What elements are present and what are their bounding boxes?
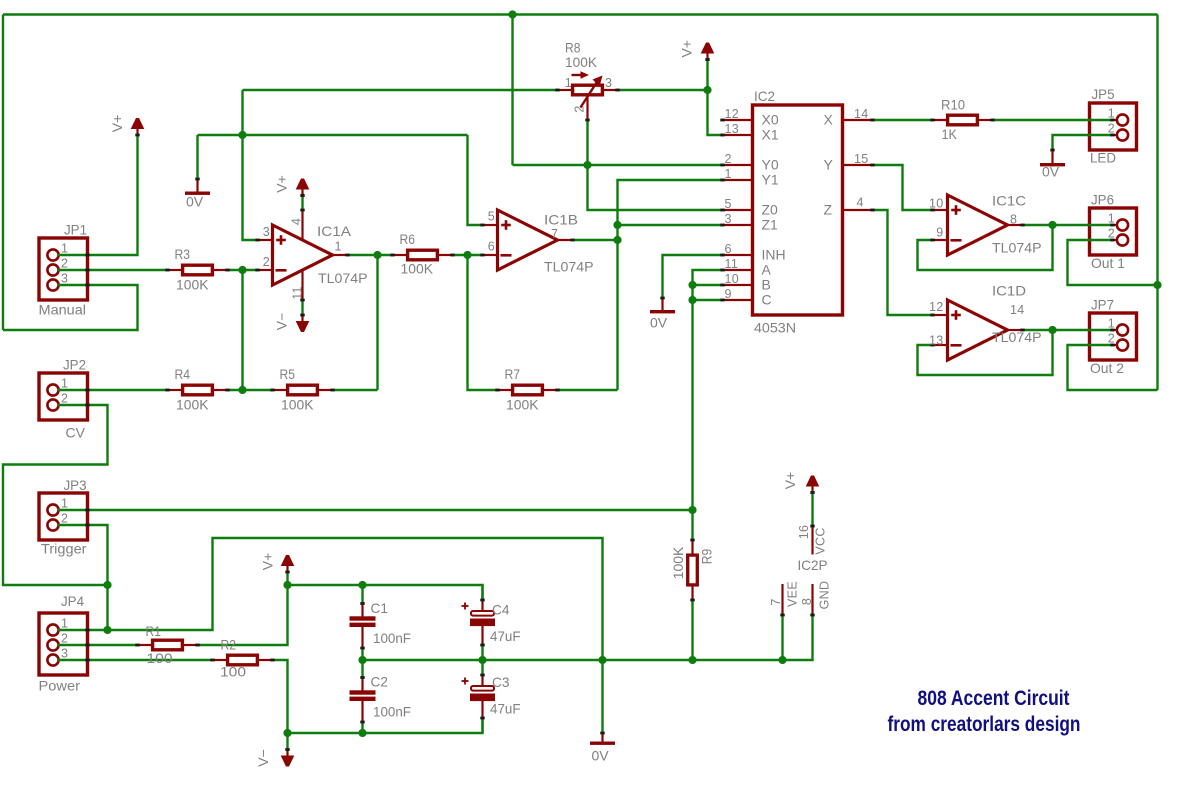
svg-text:TL074P: TL074P [992, 240, 1042, 256]
svg-text:Z0: Z0 [762, 202, 779, 218]
svg-text:X0: X0 [762, 112, 779, 128]
wire Y1 [618, 180, 723, 390]
svg-text:JP1: JP1 [64, 222, 87, 238]
wire bias 0V horizontal [198, 134, 468, 136]
junction Z1 / IC1B out net [613, 221, 621, 229]
ground 0V at bottom rail [590, 732, 615, 745]
wire IC1A out to R6 [348, 254, 393, 256]
JP7 pin contact points [1110, 329, 1114, 347]
junction IC1A out / R5 / R6 [373, 251, 381, 259]
resistor R3 [165, 265, 229, 275]
resistor R1 [135, 640, 199, 650]
svg-text:JP5: JP5 [1092, 86, 1115, 102]
svg-text:Trigger: Trigger [41, 541, 87, 557]
svg-text:0V: 0V [1042, 164, 1060, 180]
wire IC1A feedback node down [241, 270, 243, 390]
svg-text:4053N: 4053N [754, 320, 796, 336]
svg-text:V+: V+ [679, 40, 695, 58]
svg-text:JP6: JP6 [1091, 192, 1114, 208]
wire bias net vertical [243, 90, 258, 240]
JP1 pin contact points [85, 254, 89, 287]
wire IC1B out [573, 239, 618, 241]
wire Z1 [618, 224, 723, 226]
svg-text:R7: R7 [505, 366, 521, 382]
svg-text:5: 5 [488, 210, 495, 224]
svg-text:3: 3 [605, 76, 612, 90]
wire JP3 pin2 down [58, 525, 108, 630]
wire JP4 pin2 to R1 [58, 644, 138, 646]
JP6 pin contact points [1110, 224, 1114, 242]
junction V+ rail / C1 [358, 581, 366, 589]
wire JP1 pin2 to R3 [58, 269, 168, 271]
junction trigger / R9 [688, 506, 696, 514]
svg-text:100K: 100K [281, 397, 314, 413]
wire R8 pin3 to V+ node [618, 89, 708, 91]
svg-text:C2: C2 [371, 674, 389, 690]
wire IC2 X to R10 [873, 119, 933, 121]
wire IC1D feedback [918, 330, 1053, 375]
svg-text:Y1: Y1 [762, 172, 779, 188]
svg-text:R5: R5 [280, 366, 296, 382]
svg-text:14: 14 [1010, 303, 1025, 317]
svg-text:1: 1 [1108, 317, 1115, 331]
svg-text:IC1B: IC1B [544, 212, 578, 228]
ground 0V at bias net [185, 178, 210, 195]
svg-text:13: 13 [725, 122, 740, 136]
svg-text:C: C [762, 292, 772, 308]
svg-text:2: 2 [61, 632, 68, 646]
op-amp IC1D [930, 300, 1024, 360]
trimmer R8 [555, 71, 619, 121]
wire IC1A pin4 stem [301, 193, 303, 210]
svg-text:7: 7 [551, 227, 558, 241]
svg-text:R9: R9 [699, 549, 715, 565]
svg-text:5: 5 [725, 197, 732, 211]
svg-text:1: 1 [725, 167, 732, 181]
wire ground rail [363, 615, 813, 660]
wire R2 to V- rail [273, 660, 288, 733]
wire IC2 Z to IC1D [873, 210, 933, 315]
capacitor C2 [350, 660, 376, 733]
wire IC1A out feedback down [376, 255, 378, 390]
wire top border net [3, 13, 1158, 15]
resistor R9 [688, 539, 698, 602]
svg-text:100: 100 [220, 664, 246, 680]
wire B [693, 284, 723, 286]
svg-text:X1: X1 [762, 127, 779, 143]
svg-text:C1: C1 [371, 600, 389, 616]
svg-text:TL074P: TL074P [992, 329, 1042, 345]
svg-text:100K: 100K [565, 54, 598, 70]
svg-text:10: 10 [725, 272, 740, 286]
svg-text:8: 8 [1010, 213, 1017, 227]
wire VCC stem [811, 492, 813, 526]
svg-text:1: 1 [61, 377, 68, 391]
junction bias net 0V [238, 131, 246, 139]
op-amp IC1A [255, 209, 349, 302]
op-amp IC1B [480, 210, 574, 270]
svg-text:2: 2 [725, 152, 732, 166]
wire JP4 pin1 ground [58, 538, 603, 660]
junction V+ rail / R1 [283, 581, 291, 589]
wire R8 wiper net [588, 120, 723, 210]
wire IC2 Y to IC1C [873, 165, 933, 210]
svg-text:808 Accent Circuit: 808 Accent Circuit [918, 687, 1070, 710]
wire INH to 0V [663, 255, 723, 298]
svg-text:Z1: Z1 [762, 217, 779, 233]
wire IC1D out to JP7 [1023, 329, 1113, 331]
svg-text:IC2: IC2 [754, 88, 775, 104]
IC U2 power pins IC2P [780, 525, 814, 617]
svg-text:X: X [824, 112, 834, 128]
svg-text:TL074P: TL074P [544, 259, 594, 275]
junction A / B [688, 281, 696, 289]
svg-text:14: 14 [854, 107, 869, 121]
junction ground rail / 0V [598, 656, 606, 664]
svg-text:GND: GND [818, 581, 832, 610]
junction B / C [688, 296, 696, 304]
svg-text:JP7: JP7 [1091, 297, 1114, 313]
wire JP2 pin1 to R4 [58, 389, 168, 391]
svg-text:6: 6 [488, 240, 495, 254]
svg-text:VEE: VEE [786, 581, 800, 607]
wire R1 to V+ rail [198, 585, 288, 645]
wire R5 to feedback node [333, 389, 378, 391]
svg-text:2: 2 [263, 255, 270, 269]
svg-text:10: 10 [929, 197, 944, 211]
svg-text:C3: C3 [492, 674, 510, 690]
svg-text:INH: INH [762, 247, 786, 263]
svg-text:Out 1: Out 1 [1091, 255, 1125, 271]
wire R3 to IC1A pin2 [228, 269, 258, 271]
wire ground to 0V bottom [601, 660, 603, 733]
svg-text:1: 1 [1108, 212, 1115, 226]
junction JP3 pin2 / JP4 pin1 [103, 626, 111, 634]
V+ symbol at IC1A pin4 [296, 179, 310, 197]
resistor R2 [210, 655, 274, 665]
svg-text:12: 12 [725, 107, 740, 121]
JP4 pin contact points [85, 629, 89, 662]
svg-text:LED: LED [1090, 150, 1116, 166]
wire C [693, 299, 723, 301]
junction ground rail / C4 C3 [478, 656, 486, 664]
svg-text:Manual: Manual [39, 302, 87, 318]
svg-text:100K: 100K [670, 546, 686, 579]
svg-text:47uF: 47uF [490, 701, 521, 717]
svg-text:100K: 100K [176, 397, 209, 413]
svg-text:A: A [762, 262, 772, 278]
connector JP2 [39, 373, 88, 420]
JP5 pin contact points [1110, 119, 1114, 137]
svg-text:9: 9 [725, 287, 732, 301]
svg-text:from creatorlars design: from creatorlars design [888, 713, 1081, 736]
junction R6 / IC1B pin6 / R7 [463, 251, 471, 259]
svg-text:V+: V+ [274, 175, 290, 193]
wire R6 to IC1B pin6 [453, 254, 483, 256]
svg-text:V+: V+ [109, 115, 125, 133]
wire V+ arrow stem [286, 572, 288, 585]
svg-text:TL074P: TL074P [318, 270, 368, 286]
wire IC1B pin6 to R7 left [468, 255, 498, 390]
svg-text:13: 13 [929, 334, 944, 348]
wire right border net [1156, 15, 1158, 391]
wire Y0 [513, 164, 723, 166]
svg-text:V+: V+ [782, 472, 798, 490]
wire JP5 pin2 to 0V [1053, 135, 1113, 150]
connector JP3 [39, 493, 88, 540]
resistor R5 [270, 385, 334, 395]
svg-text:1: 1 [335, 240, 342, 254]
V+ symbol at IC2P VCC [806, 476, 820, 494]
capacitor C1 [350, 585, 376, 660]
V+ symbol at supply rail [281, 555, 295, 573]
connector JP1 [39, 238, 88, 300]
wire R9 bottom to rail [691, 600, 693, 660]
svg-text:Z: Z [824, 202, 833, 218]
svg-text:1: 1 [1108, 107, 1115, 121]
svg-text:V−: V− [274, 313, 290, 331]
svg-text:3: 3 [263, 225, 270, 239]
svg-text:IC1D: IC1D [992, 283, 1026, 299]
svg-text:9: 9 [936, 226, 943, 240]
svg-text:7: 7 [769, 598, 783, 605]
wire bias to R8 pin1 [243, 89, 558, 91]
op-amp IC1C [930, 195, 1024, 255]
resistor R10 [930, 115, 994, 125]
wire IC1A pin11 stem [301, 300, 303, 317]
connector JP5 [1090, 103, 1137, 150]
svg-text:V+: V+ [260, 553, 276, 571]
V+ symbol at JP1 [131, 118, 145, 136]
svg-text:100nF: 100nF [373, 704, 411, 720]
svg-text:11: 11 [725, 257, 739, 271]
svg-text:Power: Power [39, 678, 81, 694]
svg-text:C4: C4 [492, 602, 510, 618]
wire VEE to rail [781, 615, 783, 660]
wire JP6 pin2 to border [1068, 240, 1158, 285]
svg-text:Y: Y [824, 157, 834, 173]
junction ground loop left [103, 581, 111, 589]
svg-text:3: 3 [725, 212, 732, 226]
wire V- rail [288, 718, 483, 733]
svg-text:2: 2 [61, 257, 68, 271]
svg-text:12: 12 [929, 300, 944, 314]
svg-text:1: 1 [61, 617, 68, 631]
svg-text:2: 2 [1108, 122, 1115, 136]
wire JP3 pin1 trigger [58, 509, 693, 511]
svg-text:V−: V− [255, 749, 271, 767]
svg-text:IC2P: IC2P [798, 557, 828, 573]
svg-text:2: 2 [1108, 227, 1115, 241]
connector JP7 [1090, 313, 1137, 360]
svg-text:1: 1 [565, 76, 572, 90]
svg-text:100K: 100K [506, 397, 539, 413]
svg-text:100K: 100K [176, 277, 209, 293]
svg-text:IC1C: IC1C [992, 193, 1026, 209]
svg-text:47uF: 47uF [490, 628, 521, 644]
svg-text:JP4: JP4 [61, 593, 84, 609]
svg-text:6: 6 [725, 242, 732, 256]
svg-text:R2: R2 [221, 637, 237, 653]
svg-text:16: 16 [797, 525, 811, 540]
ground 0V at IC2 INH [650, 297, 675, 314]
wire V+ rail [288, 585, 483, 600]
junction R8 pin3 / V+ / X1 [703, 86, 711, 94]
svg-text:Y0: Y0 [762, 157, 779, 173]
junction IC1D out / feedback [1048, 326, 1056, 334]
junction ground rail / VEE [778, 656, 786, 664]
junction IC1C out / feedback [1048, 221, 1056, 229]
junction ground rail / R9 [688, 656, 696, 664]
svg-text:IC1A: IC1A [317, 223, 352, 239]
svg-text:R10: R10 [941, 97, 965, 113]
junction top border / Y0 [508, 10, 516, 18]
wire 0V to IC1B pin5 [468, 135, 483, 225]
svg-text:100: 100 [147, 650, 173, 666]
svg-text:2: 2 [61, 512, 68, 526]
svg-text:2: 2 [573, 105, 587, 112]
junction ground rail / C1 C2 [358, 656, 366, 664]
svg-text:2: 2 [1108, 332, 1115, 346]
V- symbol at IC1A pin11 [296, 314, 310, 332]
wire V- arrow stem [286, 733, 288, 750]
svg-text:0V: 0V [650, 315, 668, 331]
JP2 pin contact points [85, 389, 89, 407]
wire bias 0V stem [196, 135, 198, 179]
junction R3 / IC1A pin2 [238, 266, 246, 274]
capacitor C4 [462, 585, 496, 660]
wire JP1 pin3 to left border [3, 285, 138, 330]
svg-text:100K: 100K [401, 261, 434, 277]
wire JP2 pin2 ground loop [3, 405, 108, 585]
connector JP4 [39, 613, 88, 675]
ground 0V at JP5 [1040, 149, 1065, 167]
svg-text:Out 2: Out 2 [1090, 360, 1124, 376]
svg-text:0V: 0V [186, 194, 204, 210]
svg-text:JP3: JP3 [64, 477, 87, 493]
svg-text:4: 4 [290, 218, 304, 225]
junction IC1B out / Y1 / R7 [613, 236, 621, 244]
junction R4 / R5 / feedback [238, 386, 246, 394]
wire IC1C feedback [918, 225, 1053, 270]
wire R4 to R5 [228, 389, 273, 391]
svg-text:CV: CV [66, 425, 86, 441]
wire JP1 pin1 to V+ [58, 134, 138, 255]
svg-text:R3: R3 [175, 246, 191, 262]
svg-text:VCC: VCC [814, 527, 828, 554]
wire JP4 pin3 to R2 [58, 659, 213, 661]
svg-text:R6: R6 [400, 231, 416, 247]
svg-text:1: 1 [61, 242, 68, 256]
svg-text:JP2: JP2 [63, 357, 86, 373]
connector JP6 [1090, 208, 1137, 255]
svg-text:11: 11 [291, 286, 305, 300]
resistor R7 [495, 385, 559, 395]
svg-text:R4: R4 [175, 366, 191, 382]
junction Y0 / R8 wiper [583, 161, 591, 169]
wire V+ node to IC2 X1 [708, 59, 723, 135]
svg-text:B: B [762, 277, 771, 293]
JP3 pin contact points [85, 509, 89, 527]
wire IC1C out to JP6 [1023, 224, 1113, 226]
capacitor C3 [462, 660, 496, 733]
wire R10 to JP5 pin1 [993, 119, 1113, 121]
svg-text:100nF: 100nF [373, 630, 411, 646]
svg-text:3: 3 [61, 647, 68, 661]
svg-text:1: 1 [61, 497, 68, 511]
V+ symbol at IC2 X1 [701, 43, 715, 61]
svg-text:1K: 1K [942, 126, 958, 142]
resistor R6 [390, 250, 454, 260]
wire JP7 pin2 to border [1068, 345, 1158, 390]
junction right border / JP6 pin2 [1153, 281, 1161, 289]
V- symbol at supply rail [281, 748, 295, 766]
svg-text:15: 15 [854, 152, 869, 166]
svg-text:3: 3 [61, 272, 68, 286]
svg-text:0V: 0V [592, 748, 610, 764]
svg-text:8: 8 [800, 598, 814, 605]
wire left border net [2, 15, 4, 331]
wire A [693, 270, 723, 540]
wire border to Y0 drop [511, 15, 513, 166]
svg-text:2: 2 [61, 392, 68, 406]
wire R7 right up [558, 389, 618, 391]
svg-text:R1: R1 [146, 623, 162, 639]
IC U2 4053N body [720, 105, 874, 315]
resistor R4 [165, 385, 229, 395]
junction V- rail / R2 [283, 729, 291, 737]
junction V- rail / C2 [358, 729, 366, 737]
svg-text:4: 4 [857, 196, 864, 210]
